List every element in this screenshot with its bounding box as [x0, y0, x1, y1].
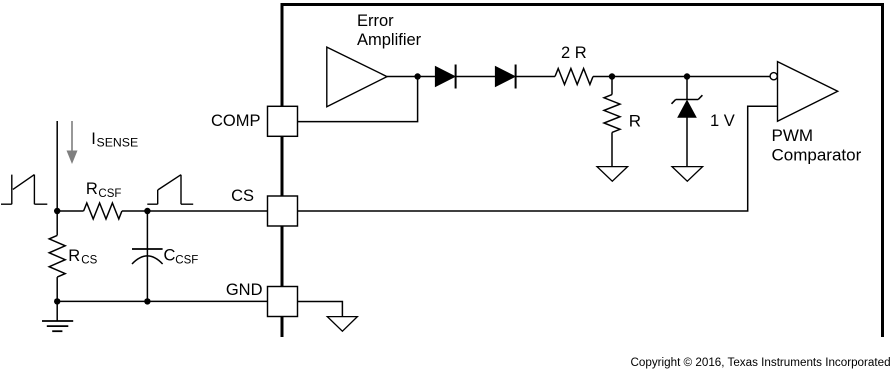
svg-text:CS: CS [231, 187, 254, 205]
ground arrow (resistor R) [597, 167, 628, 182]
ground (left, 3-bar earth symbol) [42, 301, 73, 331]
wire feedback to COMP pin [298, 77, 418, 122]
wire D1 to D2 [456, 76, 496, 78]
svg-text:CSF: CSF [175, 254, 198, 266]
label RCS [68, 247, 97, 267]
node D junction dot (divider node) [609, 73, 615, 79]
current arrow ISENSE [67, 121, 78, 164]
op-amp U2 error amplifier [327, 47, 387, 107]
wire CS pin to PWM comparator lower input [298, 106, 778, 211]
op-amp U3 PWM comparator [778, 62, 838, 122]
svg-text:R: R [86, 180, 98, 198]
svg-text:Copyright © 2016, Texas Instru: Copyright © 2016, Texas Instruments Inco… [631, 356, 891, 369]
pin GND [268, 287, 298, 317]
diode D1 [435, 65, 455, 89]
svg-text:I: I [91, 130, 96, 148]
wire ISENSE input (vertical into node A) [56, 121, 58, 211]
wire node B to CS pin [147, 210, 268, 212]
resistor RCSF [84, 203, 122, 219]
svg-text:GND: GND [226, 281, 263, 299]
label ISENSE [91, 130, 138, 150]
wire 2R to PWM comparator input [593, 76, 770, 78]
bottom wire (node A to GND pin) [57, 300, 268, 302]
svg-text:C: C [164, 247, 176, 265]
wire RCSF to node B [122, 210, 147, 212]
inverting input bubble [770, 73, 777, 80]
pin COMP [268, 106, 298, 136]
svg-text:1 V: 1 V [710, 112, 735, 130]
label PWM Comparator [772, 126, 862, 165]
resistor R (divider) [604, 77, 620, 167]
resistor 2R [555, 69, 593, 85]
svg-text:Amplifier: Amplifier [357, 31, 422, 49]
node A junction dot (RCSF left / RCS top) [54, 208, 60, 214]
pin CS [268, 196, 298, 226]
resistor RCS [49, 211, 65, 301]
junction dot bottom left [54, 298, 60, 304]
svg-text:R: R [68, 247, 80, 265]
svg-text:CSF: CSF [98, 188, 121, 200]
label CCSF [164, 247, 199, 267]
svg-text:2 R: 2 R [561, 44, 587, 62]
ground arrow (zener) [672, 167, 703, 182]
wire D2 to resistor 2R [516, 76, 555, 78]
node E junction dot (zener node) [684, 73, 690, 79]
svg-text:COMP: COMP [211, 112, 261, 130]
IC boundary box U1 (open bottom) [282, 5, 883, 338]
ground arrow (GND pin) [327, 317, 357, 332]
zener diode D3 1V [672, 77, 703, 167]
capacitor CCSF [132, 211, 163, 301]
junction dot bottom CCSF [144, 298, 150, 304]
label RCSF [86, 180, 122, 200]
diode D2 [495, 65, 515, 89]
node C junction dot (error amp output) [414, 73, 420, 79]
waveform glyph at RCSF input [1, 175, 47, 205]
svg-text:Error: Error [357, 12, 394, 30]
wire node A to RCSF [57, 210, 83, 212]
svg-text:SENSE: SENSE [97, 136, 139, 150]
svg-text:Comparator: Comparator [772, 146, 862, 165]
label Error Amplifier [357, 12, 422, 49]
waveform glyph at CS node [147, 175, 193, 205]
wire error amp output to diode D1 [387, 76, 435, 78]
svg-text:CS: CS [81, 255, 97, 267]
svg-text:R: R [629, 112, 641, 131]
wire GND pin to ground arrow [298, 302, 343, 317]
node B junction dot (CS node) [144, 208, 150, 214]
svg-text:PWM: PWM [772, 126, 814, 145]
